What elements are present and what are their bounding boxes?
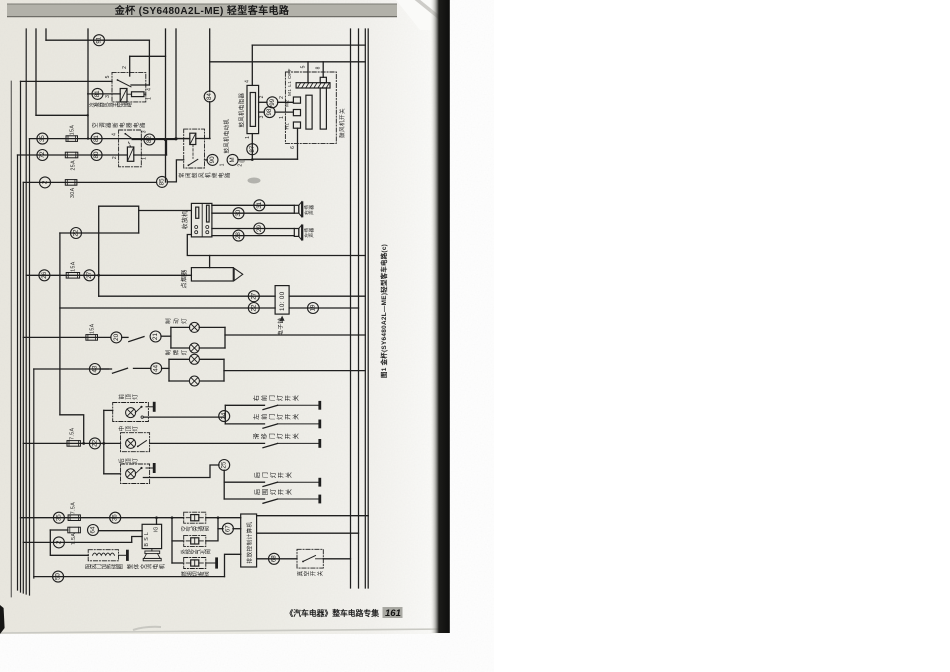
svg-text:81: 81 bbox=[94, 90, 101, 97]
wire resistor tap upper bbox=[259, 101, 267, 103]
svg-text:阀: 阀 bbox=[204, 549, 212, 554]
wire node85 jog to K3 bbox=[167, 160, 183, 182]
node 20 bbox=[111, 332, 122, 343]
rear dome lamp box bbox=[121, 464, 150, 484]
svg-text:门: 门 bbox=[268, 395, 276, 401]
svg-text:体: 体 bbox=[132, 563, 140, 569]
rear dome lamp bbox=[126, 469, 136, 479]
wire resistor bottom pin1 bbox=[251, 134, 253, 160]
right border wire R4 bbox=[367, 29, 369, 588]
svg-text:开: 开 bbox=[310, 570, 317, 576]
svg-text:1: 1 bbox=[142, 157, 148, 160]
page header bar bbox=[7, 4, 397, 18]
svg-text:50: 50 bbox=[55, 573, 62, 580]
right speaker bbox=[294, 205, 299, 213]
svg-text:2: 2 bbox=[238, 164, 244, 167]
node 84 bbox=[204, 91, 215, 102]
junction 22c lamp tap bbox=[102, 442, 105, 445]
node 24 bbox=[219, 411, 230, 422]
page bottom edge shadow bbox=[0, 629, 448, 633]
wire rear dome feed bbox=[104, 473, 121, 475]
svg-text:25A: 25A bbox=[71, 160, 77, 171]
turn lamp branch box bbox=[168, 359, 170, 381]
svg-text:5: 5 bbox=[105, 75, 111, 78]
svg-text:灯: 灯 bbox=[269, 489, 277, 495]
left bus wire B1 bbox=[17, 155, 19, 590]
svg-text:路: 路 bbox=[139, 122, 147, 128]
wire choke drop bbox=[50, 530, 88, 555]
svg-text:2: 2 bbox=[42, 180, 49, 184]
figure left border bbox=[10, 81, 12, 597]
svg-text:整: 整 bbox=[126, 563, 134, 569]
wire left speaker - bbox=[212, 235, 294, 237]
fuse 30A row2 bbox=[65, 180, 77, 186]
left bus wire B2 bbox=[20, 81, 22, 592]
air bypass valve element bbox=[191, 515, 199, 521]
svg-text:1: 1 bbox=[279, 116, 285, 119]
choke heater coil box bbox=[88, 550, 118, 561]
alternator connector box bbox=[142, 524, 162, 548]
svg-text:85: 85 bbox=[159, 178, 166, 185]
svg-text:4: 4 bbox=[112, 133, 118, 136]
svg-text:关: 关 bbox=[285, 489, 293, 495]
wire computer to vacuum switch bbox=[257, 558, 297, 560]
svg-text:91: 91 bbox=[96, 36, 103, 43]
wire node 84 vertical bbox=[209, 102, 211, 139]
brake switch bbox=[122, 336, 128, 338]
wire valve2 right riser bbox=[206, 518, 218, 541]
wire radio feed drop bbox=[138, 211, 140, 234]
wire row 43 bbox=[34, 368, 109, 370]
node 22b bbox=[248, 303, 259, 314]
fuse 15A row26 bbox=[66, 273, 79, 279]
right bus wire R2 bbox=[358, 29, 360, 588]
fuel cutoff valve terminal bbox=[206, 562, 217, 564]
left bus wire B4 bbox=[25, 29, 27, 594]
wire resistor top pin4 bbox=[251, 45, 253, 85]
vacuum switch bbox=[303, 556, 316, 562]
svg-text:26: 26 bbox=[41, 271, 48, 278]
svg-text:M1 L1 OFF: M1 L1 OFF bbox=[287, 68, 293, 96]
door switch row4 wire bbox=[224, 481, 264, 483]
svg-text:电: 电 bbox=[118, 122, 126, 128]
fuse 15A row20 bbox=[86, 335, 98, 341]
front dome lamp bbox=[126, 408, 136, 418]
brake lamp upper bbox=[189, 322, 199, 332]
svg-text:19: 19 bbox=[310, 304, 317, 311]
svg-text:28: 28 bbox=[235, 232, 242, 239]
fuel cutoff valve element bbox=[191, 560, 199, 566]
fuse 7.5A row35b bbox=[68, 515, 80, 521]
svg-text:7.5A: 7.5A bbox=[71, 533, 77, 545]
svg-text:常: 常 bbox=[178, 173, 186, 178]
svg-text:31: 31 bbox=[256, 201, 263, 208]
svg-text:门: 门 bbox=[261, 472, 269, 478]
bus wire x165.5 bbox=[165, 29, 167, 182]
svg-text:3: 3 bbox=[142, 130, 148, 133]
svg-text:制: 制 bbox=[164, 349, 172, 355]
svg-text:44: 44 bbox=[153, 364, 160, 371]
top-right page corner fold bbox=[396, 0, 437, 30]
wire blower switch pin8 bbox=[322, 62, 324, 78]
fuel cutoff valve box bbox=[184, 558, 206, 569]
brake lamp lower bbox=[189, 343, 199, 353]
node 30 bbox=[233, 208, 244, 219]
svg-text:7.5A: 7.5A bbox=[70, 427, 76, 439]
wire front dome feed bbox=[104, 409, 113, 411]
wire row 50 bbox=[34, 576, 225, 578]
blower resistor - element bbox=[250, 93, 255, 127]
svg-text:交: 交 bbox=[139, 563, 147, 569]
svg-text:15A: 15A bbox=[71, 261, 77, 272]
blower switch - box bbox=[285, 72, 336, 143]
svg-text:开: 开 bbox=[285, 395, 292, 401]
node 25 bbox=[219, 460, 230, 471]
wire valve3 left bbox=[172, 562, 184, 564]
blower switch knob square bbox=[320, 77, 326, 82]
turn switch bbox=[100, 368, 111, 370]
svg-text:24: 24 bbox=[221, 412, 228, 419]
door switch row5 wire bbox=[224, 498, 264, 500]
svg-text:灯: 灯 bbox=[131, 425, 139, 431]
door switch row4 terminal bbox=[278, 481, 320, 483]
node 22c bbox=[89, 438, 100, 449]
wire node82 to bus x165.5 bbox=[141, 139, 176, 141]
fuse 25A row72 bbox=[65, 152, 78, 158]
svg-text:顶: 顶 bbox=[125, 425, 132, 431]
door switch row2 wire bbox=[225, 423, 264, 425]
node 36 bbox=[110, 512, 121, 523]
svg-text:8: 8 bbox=[316, 66, 322, 69]
node 19 bbox=[308, 303, 319, 314]
svg-text:闭: 闭 bbox=[184, 173, 192, 178]
wire node44 to lamp box2 bbox=[162, 367, 170, 369]
door switch row5 terminal bbox=[278, 498, 320, 500]
node 35b bbox=[53, 512, 64, 523]
right bus wire R1 bbox=[350, 29, 352, 588]
svg-text:M: M bbox=[229, 157, 236, 162]
wire node67 bbox=[218, 528, 223, 530]
svg-text:22: 22 bbox=[91, 439, 98, 446]
svg-text:围: 围 bbox=[262, 489, 269, 495]
svg-text:收放机: 收放机 bbox=[181, 210, 189, 229]
svg-text:161: 161 bbox=[385, 608, 401, 619]
fuse 7.5A row64 bbox=[68, 527, 81, 533]
svg-text:路: 路 bbox=[126, 102, 133, 107]
svg-text:30A: 30A bbox=[70, 187, 76, 198]
node 81b bbox=[91, 133, 102, 144]
node 67 bbox=[222, 523, 233, 534]
right bus wire R3 bbox=[364, 29, 366, 588]
cigarette lighter body bbox=[191, 268, 233, 281]
junction valve common bbox=[171, 516, 174, 519]
svg-text:99: 99 bbox=[269, 98, 276, 105]
door switch row5 blade bbox=[263, 499, 278, 503]
svg-text:2: 2 bbox=[259, 95, 265, 98]
svg-text:35: 35 bbox=[55, 514, 62, 521]
svg-text:鼓风机开关: 鼓风机开关 bbox=[338, 108, 346, 138]
relay K2 armature link bbox=[129, 142, 131, 147]
blower motor M bbox=[227, 154, 238, 165]
svg-text:H1: H1 bbox=[285, 123, 291, 130]
wire x98.7 drop bbox=[98, 206, 100, 296]
svg-text:后: 后 bbox=[254, 489, 262, 495]
svg-text:电: 电 bbox=[152, 563, 160, 569]
node 44 bbox=[151, 363, 162, 374]
wire computer left pin bbox=[225, 554, 241, 576]
svg-text:图1 金杯(SY6480A2L—ME)轻型客车电路(c): 图1 金杯(SY6480A2L—ME)轻型客车电路(c) bbox=[379, 244, 388, 378]
svg-text:灯: 灯 bbox=[276, 414, 284, 420]
wire node24 riser bbox=[224, 405, 226, 424]
svg-text:10: 00: 10: 00 bbox=[279, 291, 286, 311]
relay K3 armature link bbox=[192, 145, 194, 159]
outside air valve element bbox=[191, 538, 199, 544]
svg-text:1: 1 bbox=[220, 163, 226, 166]
node 90 bbox=[207, 154, 218, 165]
svg-text:电子钟: 电子钟 bbox=[277, 317, 285, 336]
svg-text:M2: M2 bbox=[285, 100, 291, 107]
wire K1 pin5 row y81 bbox=[21, 80, 113, 82]
svg-text:前: 前 bbox=[260, 414, 268, 420]
svg-text:30: 30 bbox=[235, 209, 242, 216]
wire row 22b/19 bbox=[60, 307, 275, 309]
svg-text:声器: 声器 bbox=[308, 205, 315, 215]
wire row 72 bbox=[18, 154, 128, 156]
left bus wire B5 bbox=[29, 139, 31, 595]
svg-text:35: 35 bbox=[39, 135, 46, 142]
wire node98 to switch M1 bbox=[275, 111, 294, 113]
svg-text:鼓风机电动机: 鼓风机电动机 bbox=[223, 119, 231, 154]
wire resistor tap lower bbox=[259, 111, 265, 113]
svg-text:断: 断 bbox=[111, 122, 119, 128]
wire K3 coil to node84 wire bbox=[196, 138, 210, 140]
svg-text:84: 84 bbox=[206, 93, 213, 100]
node 26 bbox=[39, 270, 50, 281]
svg-text:72: 72 bbox=[39, 151, 46, 158]
svg-text:电: 电 bbox=[132, 122, 140, 128]
svg-text:82: 82 bbox=[146, 136, 153, 143]
svg-text:IG: IG bbox=[154, 526, 160, 532]
bottom-left page edge sliver bbox=[0, 605, 5, 634]
svg-text:6: 6 bbox=[290, 146, 296, 149]
wire left speaker + bbox=[212, 228, 294, 230]
rear dome lamp terminal bbox=[146, 467, 154, 469]
wire valve1 to computer bbox=[206, 517, 241, 519]
turn lamp lower bbox=[189, 376, 199, 386]
node 64 bbox=[88, 525, 99, 536]
choke heater coil bbox=[93, 553, 115, 555]
svg-text:25: 25 bbox=[221, 461, 228, 468]
door switch row1 terminal bbox=[278, 404, 320, 406]
wire computer out mid to bus bbox=[257, 532, 359, 534]
svg-text:灯: 灯 bbox=[269, 472, 277, 478]
front dome lamp terminal bbox=[146, 406, 154, 408]
bus wire x176 bbox=[175, 29, 177, 139]
node 68 bbox=[269, 553, 280, 564]
radio left slot bbox=[196, 207, 199, 218]
svg-text:1: 1 bbox=[147, 97, 153, 100]
svg-text:电: 电 bbox=[217, 172, 225, 178]
node 21 bbox=[150, 331, 161, 342]
wire row 22a bbox=[60, 232, 139, 234]
wire row 2 bbox=[23, 181, 156, 183]
junction IG drop bbox=[155, 516, 158, 519]
svg-text:90: 90 bbox=[209, 156, 216, 163]
wire clock right to bus bbox=[289, 295, 365, 297]
svg-text:鼓: 鼓 bbox=[191, 172, 199, 178]
scan smudge near motor junction bbox=[248, 178, 261, 184]
relay K1 condenser fan main control - box bbox=[112, 72, 146, 102]
node 99 bbox=[267, 97, 278, 108]
wire 2b jog to BSL box bbox=[132, 537, 142, 543]
blower switch contact H1 bbox=[293, 122, 300, 128]
door switch row2 terminal bbox=[278, 423, 320, 425]
svg-text:前: 前 bbox=[260, 395, 268, 401]
svg-text:路: 路 bbox=[224, 172, 232, 178]
svg-text:关: 关 bbox=[316, 570, 324, 576]
blower switch contact M2 bbox=[293, 97, 300, 103]
vacuum switch box bbox=[297, 549, 323, 568]
wire row 27b bbox=[99, 295, 275, 297]
svg-text:关: 关 bbox=[292, 414, 300, 420]
svg-text:滑: 滑 bbox=[253, 433, 261, 439]
node 82 bbox=[144, 134, 155, 145]
wire right speaker - bbox=[212, 212, 294, 214]
svg-text:排放控制计算机: 排放控制计算机 bbox=[245, 522, 253, 564]
svg-text:15A: 15A bbox=[70, 125, 76, 136]
door switch row3 blade bbox=[263, 443, 278, 447]
relay K3 switch bbox=[188, 159, 197, 165]
node 35 bbox=[37, 133, 48, 144]
radio-cassette unit box bbox=[191, 203, 212, 237]
svg-text:开: 开 bbox=[278, 472, 285, 478]
wire blower switch pin6 bbox=[297, 128, 299, 159]
wire radio ground bbox=[187, 235, 365, 256]
wire rear dome to node25 bbox=[143, 465, 219, 478]
wire jog y115 bbox=[36, 114, 88, 116]
svg-text:3: 3 bbox=[259, 115, 265, 118]
wire resistor top to right bus y45 bbox=[252, 44, 365, 46]
svg-text:7.5A: 7.5A bbox=[71, 502, 77, 514]
svg-text:关: 关 bbox=[285, 472, 293, 478]
fuse 7.5A row22c bbox=[67, 441, 80, 447]
wire junction to blower switch pin6 bbox=[252, 158, 297, 160]
air bypass valve box bbox=[184, 512, 206, 523]
top wire at x46 bbox=[45, 29, 47, 40]
svg-text:2: 2 bbox=[279, 96, 285, 99]
wire middle dome to door switch row3 bbox=[150, 442, 265, 444]
choke heater terminal bbox=[119, 554, 128, 556]
svg-text:开: 开 bbox=[285, 433, 292, 439]
svg-text:5: 5 bbox=[300, 65, 306, 68]
wire node81a to K1 coil bbox=[88, 93, 121, 95]
clock ground mark bbox=[280, 316, 285, 321]
node 31 bbox=[254, 200, 265, 211]
svg-text:灯: 灯 bbox=[131, 394, 139, 400]
wire clock right 19 row bbox=[289, 307, 358, 309]
wire node99 to switch M2 bbox=[278, 101, 294, 103]
svg-text:27: 27 bbox=[250, 292, 257, 299]
wire valve common riser bbox=[171, 518, 173, 563]
relay K2 A/C cutout - box bbox=[119, 130, 142, 167]
node 27a bbox=[84, 270, 95, 281]
wire vacuum switch to bus bbox=[323, 558, 350, 560]
node 2b bbox=[53, 537, 64, 548]
radio right slot bbox=[207, 205, 210, 222]
svg-text:机: 机 bbox=[204, 172, 212, 178]
left bus wire B6 bbox=[33, 369, 35, 578]
wire front dome to node24 bbox=[143, 416, 225, 418]
node 29 bbox=[254, 223, 265, 234]
svg-text:机: 机 bbox=[158, 563, 166, 569]
relay K3 coil bbox=[190, 133, 196, 144]
svg-text:1: 1 bbox=[245, 136, 251, 139]
wire K2 coil out to bus bbox=[134, 154, 167, 156]
wire valve2 left bbox=[172, 540, 184, 542]
svg-text:顶: 顶 bbox=[125, 458, 132, 464]
door switch row3 terminal bbox=[278, 442, 320, 444]
wire row 26 bbox=[26, 274, 191, 276]
junction 22c fuse out bbox=[82, 442, 85, 445]
wire node25 riser bbox=[223, 470, 225, 499]
blower switch bar contact B bbox=[320, 88, 326, 129]
svg-text:点烟器: 点烟器 bbox=[180, 269, 188, 288]
svg-text:前: 前 bbox=[118, 394, 126, 400]
blower switch slider hatched bar bbox=[296, 83, 330, 88]
wire blower switch pin5 bbox=[307, 62, 309, 83]
wire node21 to lamp box1 bbox=[161, 335, 171, 337]
wire row 35b bbox=[21, 517, 184, 519]
footer page number box bbox=[383, 607, 403, 618]
scan streak bottom left bbox=[133, 627, 161, 630]
wire dome lamp riser bbox=[103, 410, 105, 473]
svg-text:15A: 15A bbox=[90, 323, 96, 334]
svg-text:圈: 圈 bbox=[117, 564, 124, 569]
relay K1 pin2 wire bbox=[129, 56, 131, 72]
svg-text:20: 20 bbox=[113, 333, 120, 340]
door switch row1 blade bbox=[263, 405, 278, 409]
blower switch bar contact A bbox=[306, 95, 312, 129]
svg-text:4: 4 bbox=[245, 80, 251, 83]
top wire at x36 bbox=[35, 29, 37, 115]
relay K1 series resistor bbox=[132, 92, 145, 97]
node 81a bbox=[92, 88, 103, 99]
alternator body bbox=[151, 549, 153, 551]
node 2 bbox=[40, 177, 51, 188]
svg-text:B S L: B S L bbox=[144, 532, 150, 547]
wire computer out top to right border bbox=[257, 515, 369, 517]
book spine dark band at right page edge bbox=[430, 0, 450, 633]
svg-text:2: 2 bbox=[55, 540, 62, 544]
svg-text:67: 67 bbox=[224, 525, 231, 532]
junction row26/x98.7 bbox=[97, 274, 100, 277]
relay K1 switch bbox=[129, 72, 131, 76]
svg-text:左: 左 bbox=[253, 414, 261, 420]
relay K3 blower - box bbox=[184, 129, 205, 168]
cigarette lighter tip bbox=[234, 268, 243, 280]
svg-text:制: 制 bbox=[164, 318, 172, 324]
wire motor to resistor junction bbox=[238, 159, 252, 161]
wire lighter feed from radio ground wire bbox=[209, 256, 211, 268]
wire down from row y40 to relay K1 pin4 bbox=[148, 40, 150, 85]
svg-text:灯: 灯 bbox=[180, 318, 188, 324]
wire radio feed bbox=[99, 206, 192, 210]
svg-text:27: 27 bbox=[86, 271, 93, 278]
svg-text:关: 关 bbox=[292, 395, 300, 401]
svg-text:动: 动 bbox=[173, 318, 180, 324]
node 22a bbox=[71, 228, 82, 239]
wire row 22c bbox=[23, 442, 120, 444]
